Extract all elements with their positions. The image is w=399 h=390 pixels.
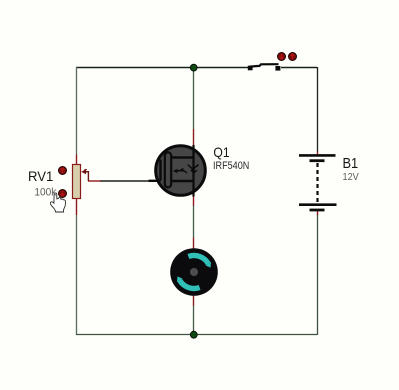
hand cursor xyxy=(50,193,65,212)
svg-text:IRF540N: IRF540N xyxy=(213,160,249,172)
pin stub motor top xyxy=(193,238,195,250)
wire right vertical lower xyxy=(317,214,319,335)
mosfet gate lead xyxy=(149,160,161,181)
wire right vertical upper xyxy=(317,67,319,152)
motor bottom rotation arc xyxy=(180,280,200,288)
mosfet gate plate xyxy=(165,152,171,187)
wire left vertical lower xyxy=(76,215,78,335)
pin stub battery top xyxy=(317,152,319,156)
mosfet channel vertical xyxy=(192,145,194,197)
wire top horizontal xyxy=(76,67,248,69)
pin stub pot bottom xyxy=(76,198,78,215)
mosfet drain bar xyxy=(172,156,194,159)
switch button up xyxy=(289,53,297,61)
potentiometer RV1 wiper arrow xyxy=(85,172,89,181)
switch left contact xyxy=(248,66,253,71)
pin stub pot top xyxy=(76,155,78,166)
pin stub battery bottom xyxy=(317,211,319,216)
switch lever xyxy=(250,64,279,66)
pin stub pot wiper xyxy=(88,180,101,182)
wire top horizontal right of switch xyxy=(281,67,317,69)
pot increment button xyxy=(59,167,67,175)
battery B1 bottom long plate xyxy=(299,203,337,206)
pot decrement button xyxy=(59,190,67,198)
motor shaft dot xyxy=(190,268,198,276)
motor body circle xyxy=(170,248,218,296)
wire bottom horizontal xyxy=(76,334,317,336)
junction node bottom xyxy=(190,331,197,338)
pin stub mosfet drain xyxy=(193,129,195,146)
potentiometer RV1 body xyxy=(73,165,81,199)
wire gate horizontal xyxy=(100,180,150,182)
wire motor to bottom junction xyxy=(193,305,195,335)
switch button down xyxy=(278,53,286,61)
pin stub mosfet source xyxy=(193,196,195,206)
mosfet source bar xyxy=(172,180,194,183)
wire mosfet to motor xyxy=(193,205,195,238)
mosfet body arrow xyxy=(177,170,184,172)
junction node top xyxy=(190,64,197,71)
svg-text:RV1: RV1 xyxy=(28,168,53,184)
wire left vertical upper xyxy=(76,67,78,155)
mosfet Q1 body circle xyxy=(156,146,206,196)
svg-text:Q1: Q1 xyxy=(213,144,229,160)
motor top rotation arc xyxy=(188,256,208,264)
switch right contact xyxy=(275,66,280,71)
svg-text:100k: 100k xyxy=(34,186,56,198)
battery B1 bottom short plate xyxy=(310,209,325,212)
mosfet body diode xyxy=(188,165,194,171)
svg-text:B1: B1 xyxy=(343,155,359,172)
battery B1 top long plate xyxy=(299,154,336,157)
battery dashed middle xyxy=(316,163,318,203)
pin stub motor bottom xyxy=(193,295,195,306)
svg-text:12V: 12V xyxy=(343,171,359,183)
wire center vertical above mosfet xyxy=(193,67,195,129)
battery B1 top short plate xyxy=(310,159,325,162)
